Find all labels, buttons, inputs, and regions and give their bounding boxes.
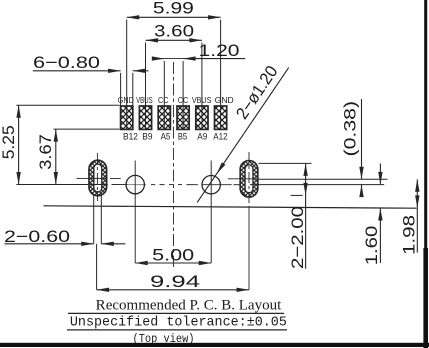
dimension 2-2.00 (slot length) [288, 163, 308, 269]
rule under note 1 [68, 312, 284, 314]
svg-text:B5: B5 [178, 132, 187, 142]
extension line pad1 right edge [132, 73, 134, 106]
svg-text:A12: A12 [213, 132, 227, 142]
svg-text:VBUS: VBUS [136, 96, 153, 105]
extension line pad4 center [182, 61, 184, 129]
rule under note 2 [67, 329, 287, 331]
svg-text:2−2.00: 2−2.00 [288, 206, 307, 269]
slot pad right (oblong hole) [240, 161, 258, 198]
svg-text:3.67: 3.67 [36, 134, 55, 170]
extension line pad-bottom level (for 3.67) [54, 128, 120, 130]
pad B9 (VBUS) [139, 106, 151, 129]
pad number labels bottom row [123, 132, 228, 142]
pad B5 (CC) [177, 106, 189, 129]
svg-text:(0.38): (0.38) [341, 101, 360, 157]
extension line slot-row level right (for 0.38/1.98) [258, 178, 387, 180]
extension line slot-top level (for 2-2.00) [258, 162, 311, 164]
pad A5 (CC) [158, 106, 170, 129]
dimension (0.38) row offset [341, 99, 364, 197]
scan border bottom bar [0, 343, 429, 347]
svg-text:B12: B12 [123, 132, 138, 142]
leader line 2-dia1.20 pointing at hole [197, 62, 289, 202]
pad name labels top row [118, 96, 234, 105]
extension line pad6 center [220, 20, 222, 130]
svg-text:2−0.60: 2−0.60 [4, 227, 70, 246]
centerline axis vertical (between CC pads) [173, 62, 175, 267]
dimension 6-0.80 (pad width) [33, 53, 149, 73]
svg-text:GND: GND [215, 96, 234, 105]
svg-text:5.00: 5.00 [152, 246, 194, 265]
svg-text:B9: B9 [142, 132, 152, 142]
extension line pad3 center [163, 61, 165, 129]
svg-text:Unspecified tolerance:±0.05: Unspecified tolerance:±0.05 [70, 316, 287, 331]
svg-text:A9: A9 [197, 132, 207, 142]
dimension 1.20 (CC pad centers) [152, 41, 245, 61]
extension line hole-row level right (for 0.38/1.60) [250, 184, 384, 186]
svg-text:6−0.80: 6−0.80 [33, 53, 100, 72]
slot leg right edge (0.60 slot) [100, 195, 102, 244]
centerline row holes (y=184.6) through left slot and holes [88, 184, 108, 186]
centerline row slots (y=178.8) dashes [77, 177, 88, 179]
svg-text:3.60: 3.60 [154, 21, 194, 40]
dimension 2-0.60 [4, 227, 125, 246]
pad A9 (VBUS) [196, 106, 208, 129]
extension line slot-bottom level (for 2-2.00) [291, 194, 303, 196]
crosshair/extension vertical hole right [210, 161, 212, 264]
svg-text:Recommended P. C. B. Layout: Recommended P. C. B. Layout [96, 297, 282, 313]
dimension 5.00 (hole centers) [135, 246, 211, 266]
hole right 1.20 dia [202, 176, 220, 194]
slot leg left edge (0.60 slot) [93, 195, 95, 244]
dimension 3.60 (VBUS pad centers) [146, 21, 202, 42]
centerline horizontal left slot [87, 177, 107, 179]
crosshair/extension vertical hole left [134, 161, 136, 264]
extension line hole-centerline level (for 5.25/3.67) [16, 184, 88, 186]
svg-text:9.94: 9.94 [150, 272, 200, 291]
extension line left slot center to 9.94 [96, 244, 98, 290]
extension line pad-top level (for 5.25) [16, 104, 119, 106]
svg-text:1.60: 1.60 [362, 226, 381, 266]
extension line pad5 center [201, 43, 203, 130]
extension line pad2 center [145, 43, 147, 130]
centerline vertical right slot + extension to 9.94 [248, 152, 250, 207]
dimension 1.60 [362, 164, 383, 266]
extension line pad1 center [126, 20, 128, 130]
svg-text:5.99: 5.99 [153, 0, 194, 18]
dimension 9.94 (slot centers) [97, 272, 249, 292]
pad B12 (GND) [121, 106, 133, 129]
body outline horizontal line [44, 206, 417, 208]
dimension 5.99 (outer pad centers) [127, 0, 221, 20]
centerline vertical left slot [96, 153, 98, 201]
hole left 1.20 dia [126, 175, 144, 193]
svg-text:A5: A5 [161, 132, 171, 142]
slot pad left (oblong hole) [89, 160, 107, 196]
dimension 1.98 [400, 179, 420, 255]
centerline horizontal right slot [241, 178, 257, 180]
svg-text:1.98: 1.98 [400, 215, 419, 255]
scan border right bar [424, 0, 427, 348]
pad A12 (GND) [215, 106, 227, 129]
dimension 5.25 [0, 105, 21, 184]
svg-text:5.25: 5.25 [0, 125, 18, 159]
dimension 3.67 [36, 129, 58, 184]
svg-text:1.20: 1.20 [199, 41, 240, 60]
extension line pad1 left edge [120, 73, 122, 106]
svg-text:CC: CC [158, 96, 169, 105]
